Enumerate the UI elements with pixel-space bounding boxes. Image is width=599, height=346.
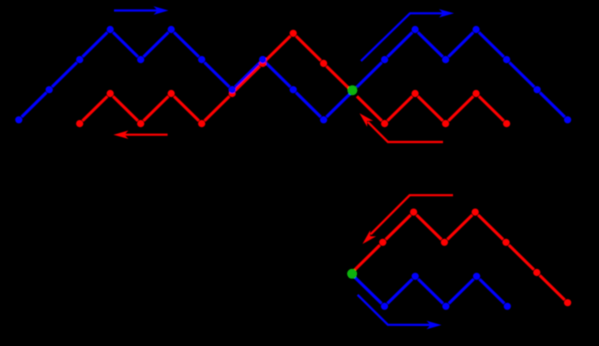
bottom blue lattice path: [355, 273, 511, 310]
bottom red lattice path: [355, 209, 571, 307]
arrow: red leftward (top): [113, 131, 167, 139]
arrow: red bent (bottom): [363, 195, 454, 244]
top node: green marked vertex: [347, 85, 357, 95]
arrow: red bent (top-middle): [360, 113, 444, 142]
arrow: blue bent (bottom): [358, 295, 442, 329]
top blue lattice path: [15, 26, 571, 124]
top red lattice path: [76, 30, 510, 128]
bottom node: green marked vertex: [347, 269, 357, 279]
arrow: blue rightward (top-left): [114, 6, 169, 14]
blue dots over shared segment (top): [229, 56, 267, 93]
arrow: blue bent (top-right): [361, 9, 454, 61]
